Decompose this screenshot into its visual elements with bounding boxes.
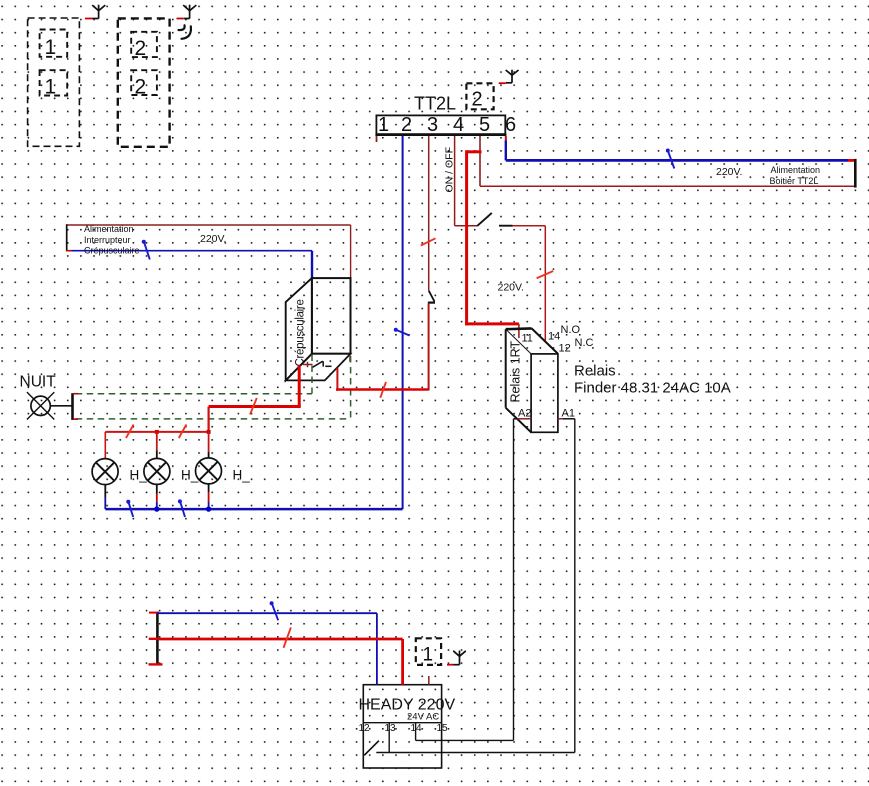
left bracket of interrupteur supply	[66, 224, 68, 251]
remote control box 1 (dashed enclosure)	[28, 18, 80, 146]
antenna remote2	[183, 5, 196, 19]
blue junction dot 1	[154, 506, 159, 511]
red stub HEADY top	[428, 676, 430, 685]
HEADY pin14 internal wire	[415, 723, 417, 741]
red wire sensor to terminal3	[336, 388, 429, 391]
svg-text:24V AC: 24V AC	[407, 712, 439, 723]
red tick middle	[149, 638, 158, 640]
receiver channel 2 dashed box	[466, 83, 493, 110]
wire terminal 2 (blue neutral down to lamps)	[402, 136, 404, 509]
red supply to HEADY	[401, 639, 404, 685]
red line of Alimentation Interrupteur (to sensor)	[66, 225, 350, 278]
relay body outline	[506, 328, 558, 432]
night rail terminal bar	[71, 393, 74, 420]
svg-text:H_: H_	[181, 468, 199, 483]
sensor output thick red wire to lamp rail	[209, 365, 301, 406]
red drop to lamp rail	[208, 407, 210, 432]
svg-text:220V.: 220V.	[498, 282, 524, 294]
relay pin A2 lead	[514, 418, 532, 420]
remote2 button 2 (top)	[131, 32, 157, 60]
night indicator lamp	[27, 392, 72, 419]
label Alimentation Boitier TT2L	[770, 165, 821, 186]
blue wire mark rail 1	[126, 500, 133, 517]
red supply horizontal	[157, 638, 402, 641]
red tick top	[149, 612, 159, 614]
red ticks night rail	[74, 394, 79, 420]
svg-text:5: 5	[479, 114, 490, 136]
wire A1 to HEADY switch	[376, 752, 575, 754]
red tick antenna HEADY	[447, 664, 454, 666]
green dashed night rail bottom	[76, 418, 351, 420]
svg-text:H_: H_	[130, 468, 148, 483]
blue supply horizontal	[157, 612, 377, 614]
lamp1 bottom lead	[104, 485, 106, 510]
wire terminal 5 down	[479, 136, 481, 186]
green dashed night rail top	[76, 393, 312, 395]
red wire mark on pin14 wire	[537, 271, 554, 278]
remote1 button 1 (bottom)	[40, 70, 68, 98]
red wire mark rail 1	[126, 425, 134, 439]
green dashed link sensor left	[311, 355, 313, 394]
sensor right output down	[336, 368, 338, 391]
red wire mark on sensor output	[250, 398, 257, 415]
svg-text:Finder 48.31 24AC 10A: Finder 48.31 24AC 10A	[574, 380, 731, 397]
blue wire mark on interrupteur blue wire	[142, 240, 150, 260]
sensor contact red lead	[303, 362, 313, 367]
sensor crepusculaire body front face	[312, 278, 351, 354]
red wire mark rail 2	[179, 425, 187, 439]
svg-text:4: 4	[453, 114, 464, 136]
wire to relay pin 14	[513, 226, 546, 341]
red tick interrupteur supply	[66, 250, 72, 252]
thick red branch terminal5 to relay pin 11	[465, 150, 519, 325]
svg-text:TT2L: TT2L	[414, 94, 456, 114]
HEADY internal switch	[364, 741, 379, 756]
blue supply to HEADY	[376, 613, 378, 685]
HEADY pin13 internal wire	[388, 723, 390, 753]
HEADY terminal line	[363, 722, 441, 724]
svg-text:ON / OFF: ON / OFF	[444, 147, 456, 193]
sensor left face	[286, 278, 312, 380]
emitter channel 1 dashed box	[416, 638, 441, 665]
blue wire mark bottom supply	[270, 601, 279, 620]
remote2 button 2 (bottom)	[131, 70, 157, 98]
red tick bottom	[149, 663, 163, 665]
wire terminal 6 (blue live to TT2L supply)	[506, 136, 848, 160]
lamp3 top lead	[208, 432, 210, 458]
svg-text:H_: H_	[233, 468, 251, 483]
svg-text:Relais 1RT: Relais 1RT	[509, 341, 523, 403]
label Alimentation Interrupteur Crepusculaire	[84, 224, 140, 256]
lamp2 top lead	[156, 432, 158, 459]
svg-text:1: 1	[423, 645, 434, 666]
wire A1 down	[574, 419, 576, 753]
svg-text:1: 1	[45, 76, 57, 99]
svg-text:220V.: 220V.	[200, 233, 226, 245]
red wire mark near sensor	[380, 382, 386, 398]
wire terminal 3 (lower, to sensor output)	[428, 303, 430, 390]
blue wire mark on supply wire	[666, 149, 675, 169]
svg-text:12: 12	[559, 343, 571, 355]
svg-text:Crépusculaire: Crépusculaire	[84, 246, 140, 256]
svg-text:14: 14	[548, 331, 560, 343]
junction dot rail 1	[155, 430, 159, 434]
wire terminal 4	[455, 136, 478, 226]
HEADY box	[363, 685, 441, 768]
wire terminal 3 (upper)	[428, 136, 430, 291]
relay pin A1 lead	[558, 418, 575, 420]
radio emission arcs	[179, 25, 191, 39]
wire red tick antenna1	[85, 18, 93, 20]
red supply wire to TT2L power box	[480, 185, 855, 187]
svg-text:1: 1	[378, 114, 389, 136]
svg-text:13: 13	[385, 723, 397, 734]
sensor bottom face	[286, 354, 351, 381]
svg-text:Boitier TT2L: Boitier TT2L	[770, 176, 819, 186]
wire A2 to HEADY pin14	[416, 739, 514, 741]
svg-text:2: 2	[135, 37, 147, 60]
sensor contact blade	[313, 361, 332, 367]
svg-text:A1: A1	[562, 407, 575, 419]
lamp1 top lead	[104, 432, 106, 459]
link to relay pin 11	[518, 324, 520, 338]
svg-text:Alimentation: Alimentation	[84, 224, 134, 234]
svg-text:2: 2	[472, 89, 483, 111]
svg-text:1: 1	[45, 36, 57, 59]
blue junction dot 2	[206, 506, 211, 511]
TT2L supply terminal bar	[854, 159, 857, 188]
blue line of Alimentation Interrupteur (to sensor)	[72, 251, 313, 279]
lamp H1	[92, 459, 118, 485]
svg-text:Crépusculaire: Crépusculaire	[295, 299, 307, 366]
svg-text:11: 11	[522, 333, 533, 345]
lamp H3	[196, 458, 222, 484]
wire red tick antenna2	[177, 18, 184, 20]
antenna TT2L	[506, 70, 519, 83]
svg-text:6: 6	[505, 114, 516, 136]
antenna HEADY	[453, 651, 466, 665]
TT2L terminal block	[375, 114, 516, 136]
sensor pin tick right	[349, 355, 351, 361]
svg-text:220V.: 220V.	[716, 166, 742, 178]
svg-text:NUIT: NUIT	[20, 374, 57, 391]
svg-text:15: 15	[437, 723, 449, 734]
wire A2 down	[513, 419, 515, 741]
switch on terminal 4 line	[477, 213, 512, 226]
wire red tick antenna TT2L	[499, 82, 506, 84]
blue wire mark rail 2	[178, 499, 185, 517]
svg-text:Interrupteur: Interrupteur	[84, 235, 131, 245]
junction dot rail 2	[207, 430, 211, 434]
wire stub terminal 1	[376, 136, 378, 142]
svg-text:Relais: Relais	[574, 363, 616, 380]
red end tick of blue supply wire	[848, 159, 855, 162]
svg-text:2: 2	[401, 114, 412, 136]
remote1 button 1 (top)	[40, 30, 68, 60]
lamp supply rail (red)	[105, 431, 208, 433]
svg-text:A2: A2	[518, 407, 531, 419]
red wire mark bottom supply	[284, 627, 291, 647]
switch on terminal3 wire	[428, 291, 435, 303]
green dashed link sensor right	[350, 356, 352, 419]
svg-text:2: 2	[135, 76, 147, 99]
red wire mark on terminal3 wire	[421, 238, 436, 245]
svg-text:N.O: N.O	[561, 324, 581, 336]
lamp H2	[144, 458, 170, 484]
lamp3 bottom lead	[208, 484, 210, 509]
svg-text:Alimentation: Alimentation	[771, 165, 821, 175]
remote control box 2 (dashed enclosure)	[118, 18, 170, 146]
lamp2 bottom lead	[156, 484, 158, 509]
svg-text:12: 12	[359, 723, 371, 734]
blue wire mark on terminal2 wire	[394, 328, 410, 336]
bottom supply terminal bar	[156, 612, 159, 665]
svg-text:N.C: N.C	[575, 337, 594, 349]
antenna remote1	[92, 5, 105, 19]
lamp return rail (blue)	[105, 508, 402, 511]
svg-text:3: 3	[427, 114, 438, 136]
